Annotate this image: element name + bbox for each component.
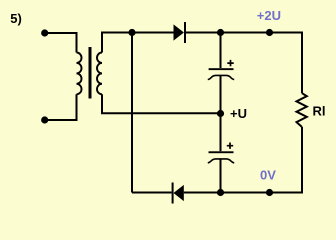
wire T1 to primary winding top	[45, 33, 77, 53]
capacitor C2 top lead wire	[220, 114, 222, 152]
diode D2 triangle (anode right, pointing left)	[174, 185, 184, 201]
terminal dot T1 (primary top input)	[41, 29, 48, 36]
transformer TR1 secondary winding	[97, 53, 102, 95]
capacitor C1 polarity plus sign	[227, 60, 233, 66]
wire primary winding bottom to T2	[45, 94, 77, 120]
diode D1 cathode bar	[184, 22, 186, 43]
capacitor C1 top plate	[209, 68, 234, 70]
wire right rail resistor bottom to bottom-right corner and along bottom rail to D2 anode	[184, 127, 302, 193]
capacitor C1 top lead wire	[220, 33, 222, 69]
capacitor C2 curved bottom plate	[208, 159, 234, 163]
wire secondary bottom to +U node	[102, 94, 221, 113]
svg-text:5): 5)	[10, 11, 22, 26]
svg-text:+2U: +2U	[257, 8, 281, 23]
wire node A down to bottom rail	[131, 33, 133, 193]
transformer TR1 primary winding	[77, 53, 82, 95]
wire top rail D1 cathode to right corner and down to resistor	[186, 33, 302, 94]
svg-text:Rl: Rl	[313, 103, 326, 118]
capacitor C2 top plate	[209, 151, 234, 153]
wire bottom rail left segment to diode D2 cathode	[132, 192, 172, 194]
diode D1 triangle (anode left, pointing right)	[174, 24, 184, 40]
capacitor C1 bottom lead wire	[220, 76, 222, 114]
capacitor C1 curved bottom plate	[208, 75, 234, 79]
resistor Rl zigzag	[297, 93, 307, 127]
terminal dot T2 (primary bottom input)	[41, 116, 48, 123]
wire secondary top to diode D1 anode	[102, 33, 174, 53]
capacitor C2 polarity plus sign	[227, 143, 233, 149]
output terminal dot +2U	[266, 29, 273, 36]
transformer TR1 core	[89, 47, 92, 99]
node +U junction dot	[217, 110, 224, 117]
junction dot bottom of C2	[217, 189, 224, 196]
output terminal dot 0V	[266, 189, 273, 196]
junction node A (secondary top / bridge branch)	[128, 29, 135, 36]
capacitor C2 bottom lead wire	[220, 159, 222, 192]
svg-text:+U: +U	[230, 106, 247, 121]
diode D2 cathode bar	[172, 183, 174, 204]
svg-text:0V: 0V	[260, 168, 276, 183]
junction dot top of C1	[217, 29, 224, 36]
